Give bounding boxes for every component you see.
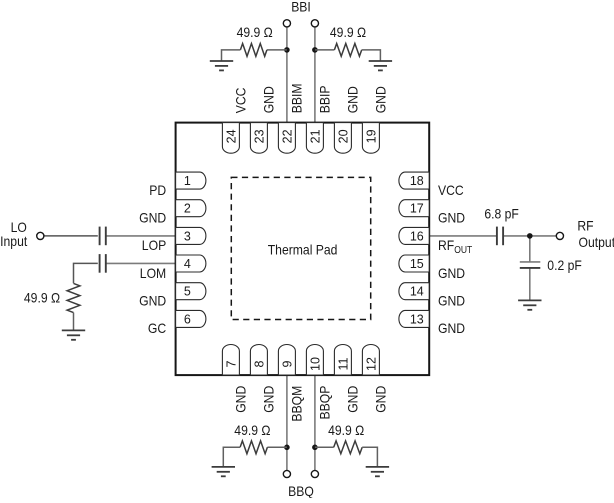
- svg-text:21: 21: [308, 129, 322, 143]
- svg-text:49.9 Ω: 49.9 Ω: [234, 422, 270, 438]
- resistor 49.9 ohm (LO termination): [67, 283, 80, 312]
- svg-text:GND: GND: [438, 210, 465, 226]
- wire dc block cap to RF output terminal: [503, 235, 556, 237]
- svg-text:13: 13: [410, 312, 424, 326]
- pin 21 (BBIP): [306, 123, 323, 154]
- svg-text:GND: GND: [233, 386, 249, 413]
- svg-text:22: 22: [280, 129, 294, 143]
- terminal BBQM (BBQ): [283, 470, 290, 477]
- wire coupling cap to pin 3 LOP: [106, 235, 176, 237]
- ground (BBIM termination): [210, 61, 233, 70]
- svg-text:GND: GND: [438, 293, 465, 309]
- svg-text:GND: GND: [345, 86, 361, 113]
- svg-text:VCC: VCC: [438, 182, 464, 198]
- wire LO input terminal to coupling cap: [44, 235, 98, 237]
- capacitor LOM coupling: [100, 254, 106, 273]
- junction BBIP / resistor: [312, 47, 318, 53]
- svg-text:Input: Input: [0, 233, 27, 249]
- svg-text:GND: GND: [438, 265, 465, 281]
- svg-text:19: 19: [364, 129, 378, 143]
- pin 2 (GND): [176, 200, 206, 217]
- svg-text:16: 16: [410, 229, 424, 243]
- terminal RF Output: [556, 232, 563, 239]
- svg-text:BBI: BBI: [291, 0, 311, 14]
- pin 20 (GND): [334, 123, 351, 154]
- svg-text:GND: GND: [373, 86, 389, 113]
- svg-text:20: 20: [336, 129, 350, 143]
- svg-text:17: 17: [410, 202, 424, 216]
- pin 16 (RFOUT): [399, 227, 429, 244]
- pin 10 (BBQP): [306, 345, 323, 376]
- svg-text:Thermal Pad: Thermal Pad: [268, 241, 338, 257]
- capacitor 6.8 pF dc block: [497, 227, 503, 246]
- svg-text:GND: GND: [438, 320, 465, 336]
- svg-text:LOP: LOP: [142, 237, 166, 253]
- svg-text:7: 7: [224, 360, 238, 367]
- svg-text:9: 9: [280, 360, 294, 367]
- terminal BBQP (BBQ): [311, 470, 318, 477]
- svg-text:BBQP: BBQP: [317, 386, 333, 420]
- svg-text:15: 15: [410, 257, 424, 271]
- pin 6 (GC): [176, 310, 206, 327]
- svg-text:GND: GND: [261, 386, 277, 413]
- svg-text:8: 8: [252, 360, 266, 367]
- ground (LO termination): [62, 330, 85, 339]
- pin 4 (LOM): [176, 255, 206, 272]
- svg-text:BBIM: BBIM: [289, 84, 305, 114]
- svg-text:49.9 Ω: 49.9 Ω: [328, 422, 364, 438]
- junction RF output node: [527, 233, 533, 239]
- svg-text:GND: GND: [139, 210, 166, 226]
- svg-text:1: 1: [184, 174, 191, 188]
- svg-text:12: 12: [364, 357, 378, 371]
- junction BBQP / resistor: [312, 445, 318, 451]
- svg-text:GC: GC: [148, 320, 166, 336]
- pin 3 (LOP): [176, 227, 206, 244]
- svg-text:VCC: VCC: [233, 88, 249, 114]
- thermal pad (dashed): [231, 177, 370, 319]
- IC package outline U1: [176, 123, 430, 376]
- svg-text:18: 18: [410, 174, 424, 188]
- ground (BBQP termination): [366, 467, 389, 476]
- pin 1 (PD): [176, 172, 206, 189]
- svg-text:6.8 pF: 6.8 pF: [484, 206, 519, 222]
- pin 24 (VCC): [222, 123, 239, 154]
- wire BBIP terminal to pin 21: [314, 27, 316, 123]
- pin 9 (BBQM): [278, 345, 295, 376]
- pin 7 (GND): [222, 345, 239, 376]
- svg-text:RF: RF: [577, 218, 593, 234]
- svg-text:5: 5: [184, 285, 191, 299]
- terminal BBIM (BBI): [283, 20, 290, 27]
- svg-text:23: 23: [252, 129, 266, 143]
- pin 8 (GND): [250, 345, 267, 376]
- wire coupling cap to pin 4 LOM: [106, 262, 176, 264]
- svg-text:BBIP: BBIP: [317, 86, 333, 114]
- svg-text:2: 2: [184, 202, 191, 216]
- svg-text:3: 3: [184, 229, 191, 243]
- pin 15 (GND): [399, 255, 429, 272]
- resistor 49.9 ohm (BBIP termination): [315, 44, 381, 62]
- wire pin 10 BBQP to terminal: [314, 375, 316, 470]
- ground (RF shunt): [518, 300, 541, 309]
- svg-text:49.9 Ω: 49.9 Ω: [237, 24, 273, 40]
- resistor 49.9 ohm (BBQM termination): [223, 441, 287, 467]
- wire pin 16 RFOUT to dc block cap: [429, 235, 497, 237]
- junction BBIM / resistor: [284, 47, 290, 53]
- svg-text:6: 6: [184, 312, 191, 326]
- pin 18 (VCC): [399, 172, 429, 189]
- svg-text:GND: GND: [139, 293, 166, 309]
- wire RF node to shunt cap and ground: [529, 236, 531, 262]
- capacitor LOP coupling: [100, 227, 106, 246]
- svg-text:PD: PD: [149, 182, 166, 198]
- pin 5 (GND): [176, 283, 206, 300]
- svg-text:BBQ: BBQ: [288, 483, 314, 498]
- svg-text:LOM: LOM: [140, 265, 166, 281]
- svg-text:GND: GND: [261, 86, 277, 113]
- resistor 49.9 ohm (BBQP termination): [315, 441, 378, 467]
- svg-text:11: 11: [336, 357, 350, 370]
- ground (BBQM termination): [212, 467, 235, 476]
- svg-text:GND: GND: [373, 386, 389, 413]
- svg-text:14: 14: [410, 285, 424, 299]
- capacitor 0.2 pF shunt: [520, 262, 541, 268]
- svg-text:Output: Output: [579, 234, 614, 250]
- pin 23 (GND): [250, 123, 267, 154]
- pin 13 (GND): [399, 310, 429, 327]
- terminal LO Input: [37, 232, 44, 239]
- pin 11 (GND): [334, 345, 351, 376]
- terminal BBIP (BBI): [311, 20, 318, 27]
- ground (BBIP termination): [369, 61, 392, 70]
- svg-text:0.2 pF: 0.2 pF: [547, 257, 582, 273]
- wire pin 9 BBQM to terminal: [286, 375, 288, 470]
- resistor 49.9 ohm (BBIM termination): [222, 44, 287, 62]
- pin 12 (GND): [362, 345, 379, 376]
- junction BBQM / resistor: [284, 445, 290, 451]
- pin 17 (GND): [399, 200, 429, 217]
- svg-text:4: 4: [184, 257, 191, 271]
- svg-text:24: 24: [224, 129, 238, 143]
- svg-text:49.9 Ω: 49.9 Ω: [330, 24, 366, 40]
- svg-text:BBQM: BBQM: [289, 386, 305, 422]
- pin 14 (GND): [399, 283, 429, 300]
- wire BBIM terminal to pin 22: [286, 27, 288, 123]
- wire LOM cap to termination resistor: [74, 263, 98, 283]
- svg-text:49.9 Ω: 49.9 Ω: [24, 290, 60, 306]
- svg-text:10: 10: [308, 357, 322, 371]
- pin 19 (GND): [362, 123, 379, 154]
- pin 22 (BBIM): [278, 123, 295, 154]
- svg-text:GND: GND: [345, 386, 361, 413]
